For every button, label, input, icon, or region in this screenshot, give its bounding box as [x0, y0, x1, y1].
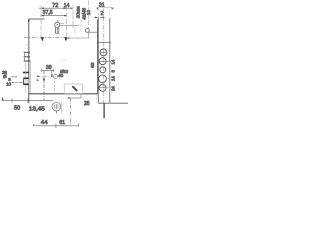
cylinder block inside case [64, 84, 83, 94]
rotated text 42/45 [81, 7, 87, 19]
rotated text 10 [86, 10, 91, 15]
horizontal centerline with section arrows [24, 37, 67, 41]
vertical dash-dot line at x44 [43, 71, 45, 101]
svg-text:50: 50 [14, 106, 20, 112]
faceplate top line [97, 41, 111, 43]
deadbolt bars [24, 78, 29, 85]
hole diameter labels [111, 59, 116, 91]
svg-text:2: 2 [100, 11, 103, 17]
rotated text 20mm [76, 6, 82, 18]
svg-text:10: 10 [86, 10, 91, 15]
hole C1 [100, 49, 107, 56]
vertical dash line at x54.5 [54, 77, 56, 94]
hole C3 [100, 67, 106, 73]
svg-text:8: 8 [111, 70, 116, 73]
svg-text:63: 63 [90, 62, 96, 68]
latch bolt bars [24, 45, 29, 62]
faceplate strip right edge [109, 18, 111, 102]
label near deadbolt circle [58, 69, 68, 78]
dimension 2 faceplate [95, 9, 110, 19]
lock case outline [28, 19, 97, 94]
rotated label 63 inside case [90, 62, 96, 68]
vertical dash-dot x70.5 bottom [70, 98, 72, 126]
dimension 38 [41, 65, 53, 72]
left small dimension labels [2, 70, 23, 86]
faceplate strip left edge [97, 18, 99, 103]
hole C5 [99, 84, 111, 91]
dimension 31 top right [96, 2, 114, 9]
case edge extension below [96, 94, 98, 103]
svg-text:61: 61 [59, 120, 65, 126]
leader line to right edge [67, 29, 98, 39]
extension line x73 [72, 5, 74, 29]
svg-text:14: 14 [111, 76, 116, 81]
centerline stub row C2 [60, 60, 66, 62]
dimension 14 top [64, 3, 70, 9]
vertical dash line at x52 [51, 70, 53, 77]
dimension 37,5 [41, 10, 67, 16]
svg-text:Ø10: Ø10 [60, 69, 69, 74]
leader 25 under case [67, 94, 90, 107]
extension line x89.5 [88, 1, 90, 29]
circled symbol [52, 102, 61, 113]
faceplate edge line [28, 19, 31, 103]
svg-text:25: 25 [84, 101, 90, 107]
keyhole in case [55, 20, 65, 34]
faceplate bottom shelf [98, 103, 128, 118]
svg-text:20мм: 20мм [76, 6, 82, 18]
extension line x66.5 [66, 6, 68, 37]
bottom dimension line 50 / 13,45 [2, 97, 54, 113]
hole C4 [99, 75, 111, 83]
faceplate strip centerline [103, 9, 105, 104]
hole C2 [99, 58, 111, 65]
extension line x41 [40, 6, 42, 37]
dimension 72 top [39, 3, 73, 9]
svg-text:14: 14 [111, 59, 116, 64]
svg-text:24: 24 [111, 86, 116, 91]
deadbolt centerline [37, 74, 62, 81]
bottom dimension 44 and 61 [33, 120, 79, 128]
svg-text:44: 44 [41, 120, 48, 126]
auxiliary bolt bar [23, 65, 29, 72]
svg-text:10: 10 [6, 81, 11, 86]
extension line x81 [80, 20, 82, 32]
svg-text:Ø: Ø [3, 74, 7, 79]
bolt tip guide line [25, 62, 27, 92]
extension line x61.8 [61, 102, 63, 114]
svg-text:13,45: 13,45 [29, 107, 45, 113]
